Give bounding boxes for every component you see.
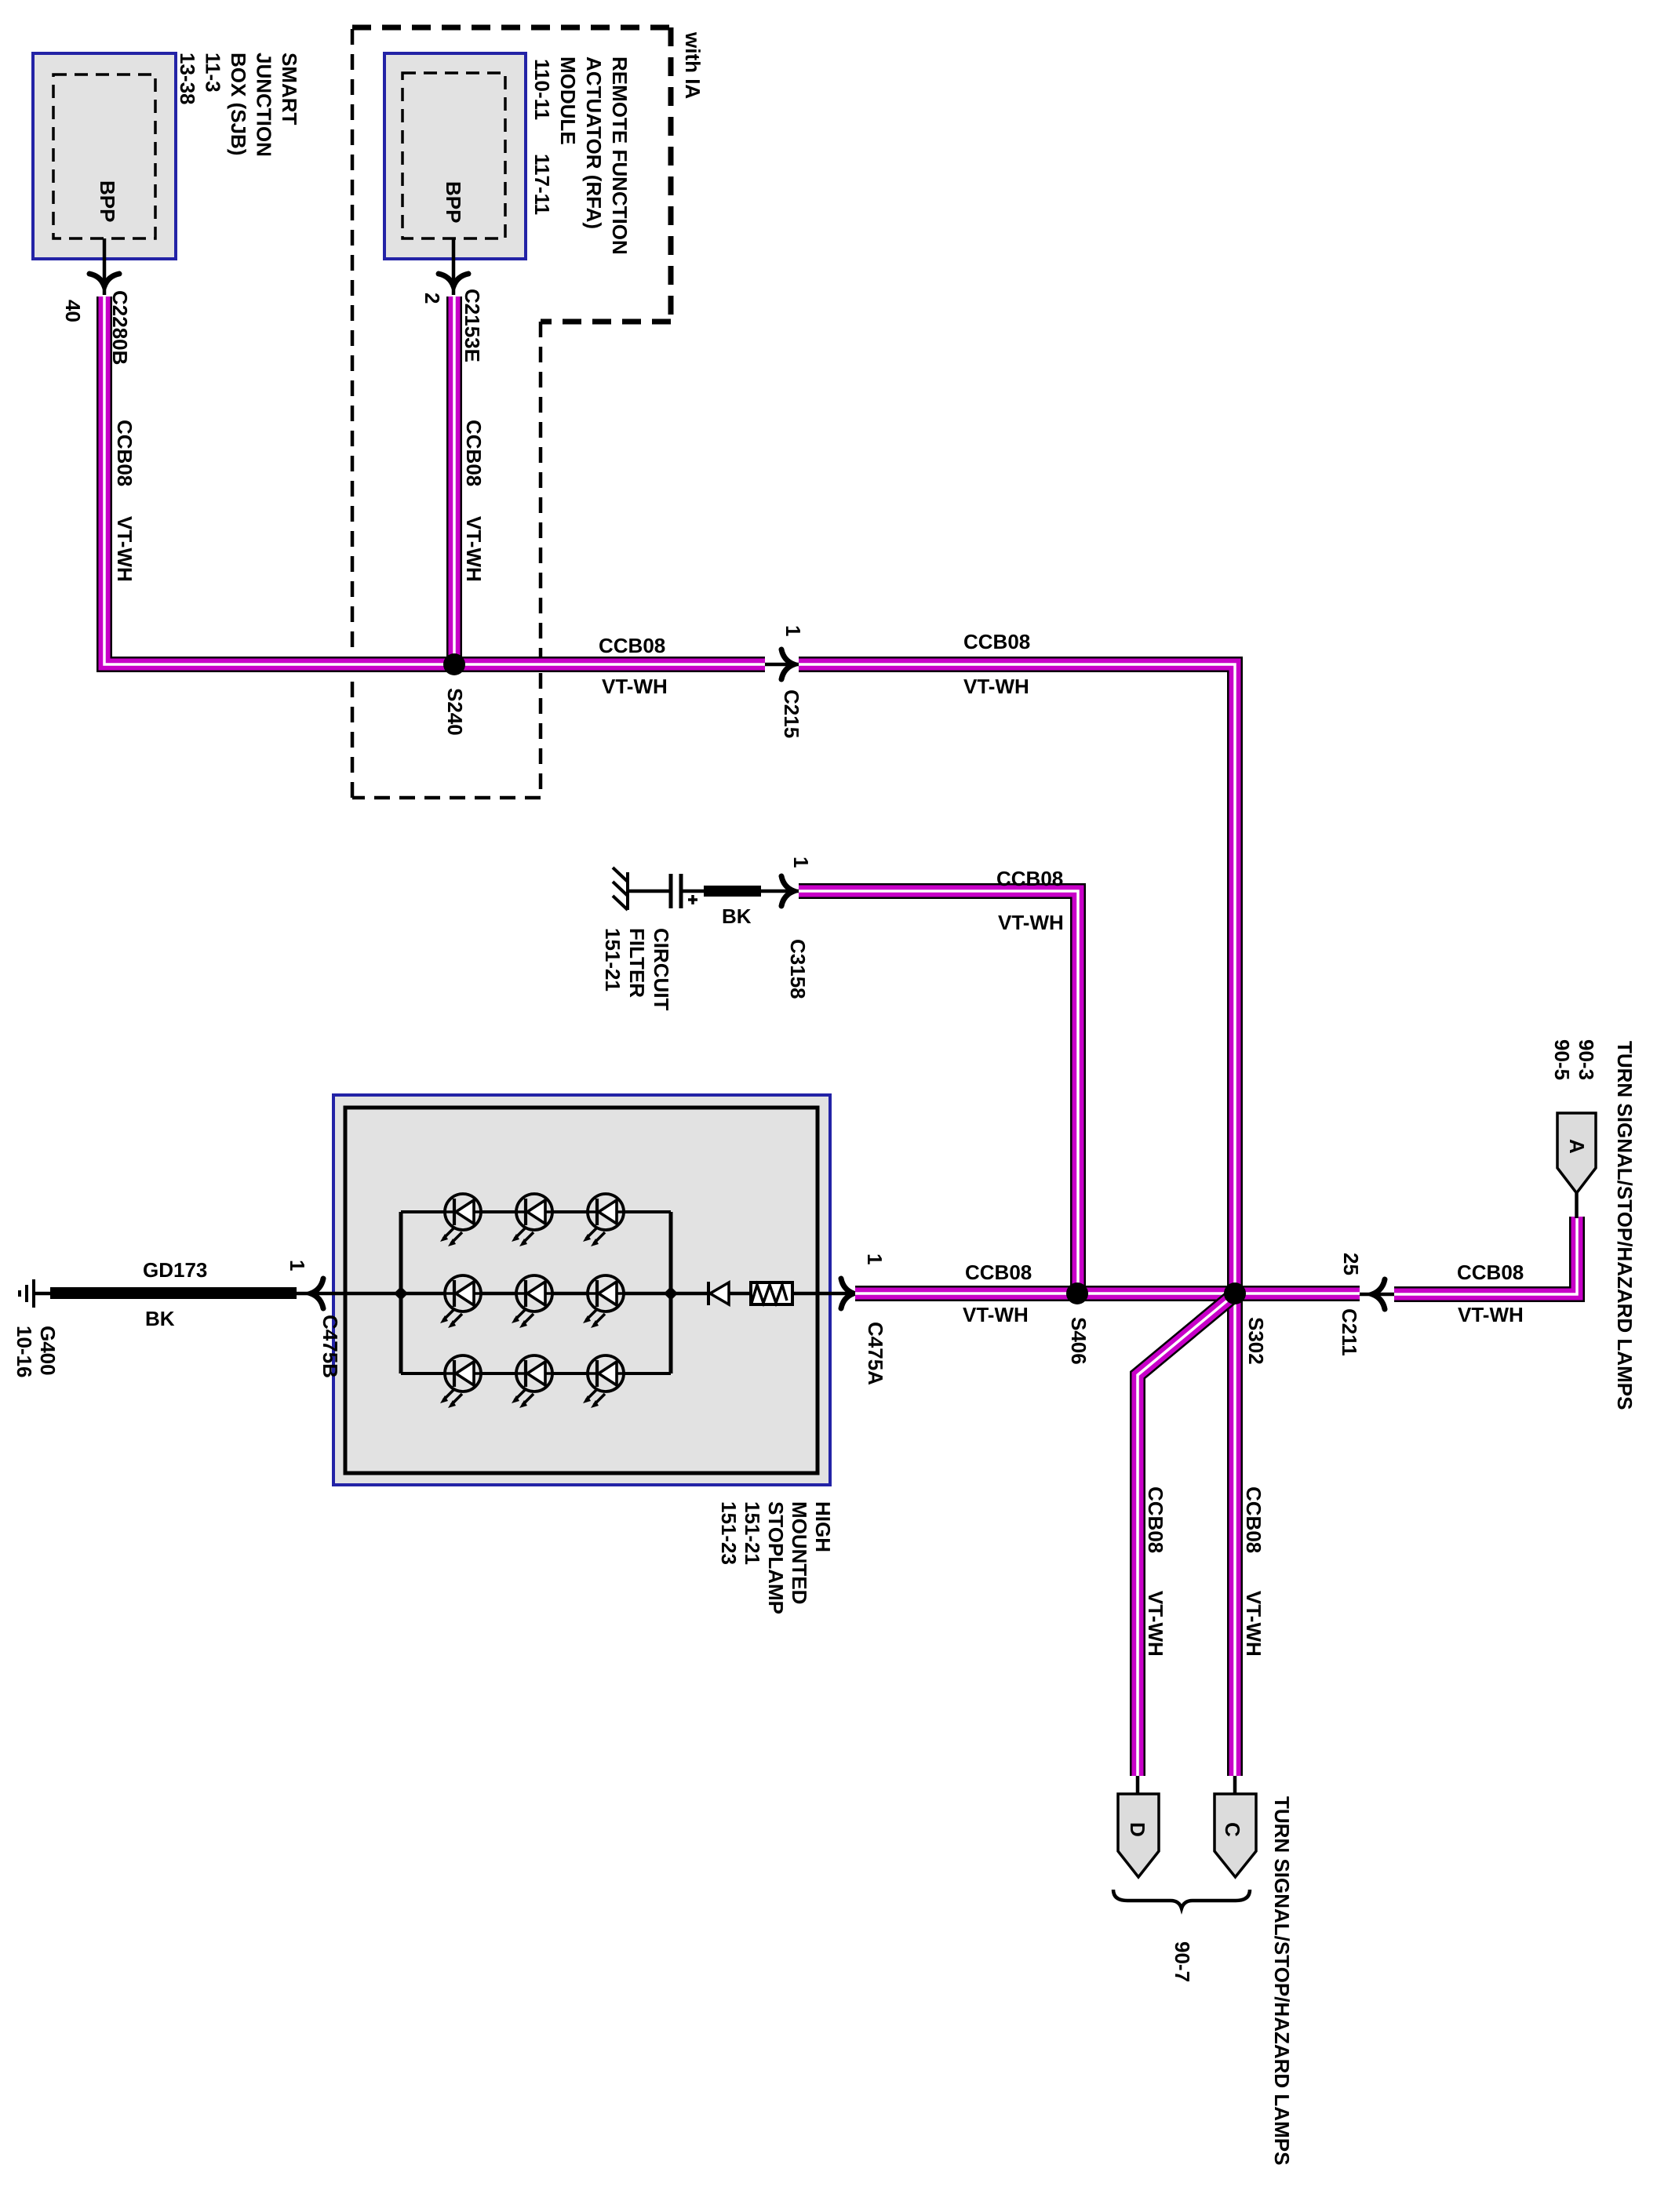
svg-text:90-7: 90-7 xyxy=(1171,1941,1194,1982)
ground G400 xyxy=(20,1279,50,1308)
filter segment label CCB08 xyxy=(996,867,1063,890)
RFA name label xyxy=(530,56,632,255)
filter BK label xyxy=(722,904,752,928)
svg-text:HIGH: HIGH xyxy=(811,1501,835,1552)
main segment label CCB08 xyxy=(965,1261,1032,1284)
filter BK wire bar xyxy=(704,886,761,897)
C215 inline lead xyxy=(765,663,799,667)
LED D5 xyxy=(512,1275,552,1328)
connector C475A label xyxy=(864,1322,887,1385)
svg-text:TURN SIGNAL/STOP/HAZARD LAMPS: TURN SIGNAL/STOP/HAZARD LAMPS xyxy=(1613,1041,1637,1410)
svg-text:CCB08: CCB08 xyxy=(996,867,1063,890)
C211 arrow xyxy=(1372,1279,1385,1309)
wire CCB08 from C3158 to S406 xyxy=(799,891,1078,1293)
filter lead to C3158 xyxy=(761,890,799,893)
svg-text:C475A: C475A xyxy=(864,1322,887,1385)
svg-text:151-23: 151-23 xyxy=(717,1501,741,1565)
wire CCB08 from C211 to connector A xyxy=(1394,1217,1577,1294)
SJB pin arrow xyxy=(89,274,119,286)
D wire label CCB08 xyxy=(1144,1486,1167,1553)
svg-text:1: 1 xyxy=(286,1260,309,1271)
svg-text:CIRCUIT: CIRCUIT xyxy=(650,928,673,1011)
C3158 arrow xyxy=(781,876,794,906)
stoplamp internal main line xyxy=(345,1292,818,1296)
D wire label VT-WH xyxy=(1144,1591,1167,1657)
wire2 label CCB08 xyxy=(462,420,486,486)
connector A destination label xyxy=(1613,1041,1637,1410)
svg-text:VT-WH: VT-WH xyxy=(1144,1591,1167,1657)
svg-text:MOUNTED: MOUNTED xyxy=(788,1501,811,1604)
circuit filter ground xyxy=(613,868,670,910)
SJB name label xyxy=(176,53,301,157)
connector A lead xyxy=(1575,1193,1579,1218)
svg-text:GD173: GD173 xyxy=(143,1258,207,1282)
LED D6 xyxy=(583,1275,624,1328)
svg-text:90-5: 90-5 xyxy=(1550,1039,1574,1080)
splice S240 label xyxy=(443,688,467,736)
svg-text:VT-WH: VT-WH xyxy=(113,516,137,582)
svg-text:S302: S302 xyxy=(1244,1317,1268,1365)
RFA pin arrow xyxy=(439,274,468,286)
LED bus rails xyxy=(401,1212,671,1373)
svg-text:VT-WH: VT-WH xyxy=(1242,1591,1266,1657)
LED D2 xyxy=(512,1194,552,1246)
svg-text:CCB08: CCB08 xyxy=(599,634,665,657)
splice S240 xyxy=(443,653,465,675)
connector C475B label xyxy=(319,1315,342,1378)
svg-text:MODULE: MODULE xyxy=(556,56,580,145)
segment1 label VT-WH xyxy=(602,675,668,698)
connector C lead xyxy=(1233,1776,1237,1794)
connector A shield xyxy=(1557,1113,1596,1193)
GD173 label xyxy=(143,1258,207,1282)
C211 lead xyxy=(1360,1293,1394,1297)
svg-text:2: 2 xyxy=(421,293,444,304)
RFA pin lead xyxy=(452,238,456,295)
svg-text:11-3: 11-3 xyxy=(202,53,225,93)
LED D1 xyxy=(440,1194,481,1246)
svg-text:VT-WH: VT-WH xyxy=(1458,1303,1524,1326)
wire1 label VT-WH xyxy=(113,516,137,582)
circuit filter capacitor xyxy=(671,874,704,908)
SJB pin label BPP xyxy=(96,180,119,222)
main wire CCB08 from C475A to C211 xyxy=(855,1286,1360,1301)
svg-text:BPP: BPP xyxy=(442,181,465,223)
LED D9 xyxy=(583,1355,624,1408)
GD173 BK label xyxy=(145,1307,175,1330)
wire CCB08 from RFA to S240 xyxy=(446,297,462,664)
connector D lead xyxy=(1136,1776,1140,1794)
svg-text:BK: BK xyxy=(722,904,752,928)
svg-text:STOPLAMP: STOPLAMP xyxy=(764,1501,788,1614)
svg-text:13-38: 13-38 xyxy=(176,53,199,105)
bus junction diamonds xyxy=(394,1286,678,1301)
svg-text:C2153E: C2153E xyxy=(461,289,484,362)
connector C2153E label xyxy=(461,289,484,362)
svg-text:with IA: with IA xyxy=(681,31,705,99)
svg-text:S240: S240 xyxy=(443,688,467,736)
LED D7 xyxy=(440,1355,481,1408)
svg-text:25: 25 xyxy=(1339,1253,1363,1275)
svg-text:CCB08: CCB08 xyxy=(963,630,1030,653)
svg-text:1: 1 xyxy=(789,857,813,868)
svg-text:110-11: 110-11 xyxy=(530,59,554,120)
svg-text:JUNCTION: JUNCTION xyxy=(253,53,276,157)
pin number 40 xyxy=(61,300,85,322)
C475B lead xyxy=(297,1292,345,1296)
C wire label CCB08 xyxy=(1242,1486,1266,1553)
high mounted stoplamp box xyxy=(333,1095,830,1485)
svg-text:BOX (SJB): BOX (SJB) xyxy=(227,53,250,155)
segment1 label CCB08 xyxy=(599,634,665,657)
svg-text:CCB08: CCB08 xyxy=(113,420,137,486)
svg-text:TURN SIGNAL/STOP/HAZARD LAMPS: TURN SIGNAL/STOP/HAZARD LAMPS xyxy=(1270,1796,1294,2165)
svg-text:1: 1 xyxy=(863,1253,887,1264)
C475B pin 1 xyxy=(286,1260,309,1271)
splice S302 label xyxy=(1244,1317,1268,1365)
RFA pin label BPP xyxy=(442,181,465,223)
connector D shield xyxy=(1118,1794,1159,1877)
svg-text:G400: G400 xyxy=(36,1326,60,1376)
svg-text:C215: C215 xyxy=(780,689,803,738)
connector C3158 label xyxy=(786,939,810,999)
circuit filter label xyxy=(601,928,673,1011)
splice S302 xyxy=(1224,1282,1246,1304)
svg-text:BPP: BPP xyxy=(96,180,119,222)
svg-text:VT-WH: VT-WH xyxy=(963,1303,1029,1326)
wire CCB08 from C215 down to S302 and connector C xyxy=(799,664,1235,1776)
C211 pin 25 xyxy=(1339,1253,1363,1275)
svg-text:90-3: 90-3 xyxy=(1575,1039,1598,1080)
connectors DC destination label xyxy=(1270,1796,1294,2165)
svg-text:C211: C211 xyxy=(1338,1308,1361,1356)
svg-text:CCB08: CCB08 xyxy=(1457,1261,1524,1284)
wire GD173 BK bar xyxy=(50,1287,297,1299)
svg-text:CCB08: CCB08 xyxy=(1144,1486,1167,1553)
svg-text:117-11: 117-11 xyxy=(530,154,554,215)
right segment label CCB08 xyxy=(1457,1261,1524,1284)
splice S406 xyxy=(1066,1282,1088,1304)
LED D4 xyxy=(440,1275,481,1328)
svg-text:FILTER: FILTER xyxy=(625,928,649,998)
connector C shield xyxy=(1215,1794,1256,1877)
svg-text:D: D xyxy=(1126,1822,1149,1837)
right segment label VT-WH xyxy=(1458,1303,1524,1326)
pin number 2 xyxy=(421,293,444,304)
C3158 pin 1 xyxy=(789,857,813,868)
LED D3 xyxy=(583,1194,624,1246)
C475A pin 1 xyxy=(863,1253,887,1264)
svg-text:VT-WH: VT-WH xyxy=(998,911,1064,934)
svg-text:151-21: 151-21 xyxy=(741,1501,764,1565)
ground G400 label xyxy=(13,1326,60,1378)
splice S406 label xyxy=(1067,1317,1091,1365)
svg-text:CCB08: CCB08 xyxy=(1242,1486,1266,1553)
connector C2280B label xyxy=(108,290,132,365)
wire2 label VT-WH xyxy=(462,516,486,582)
C215 pin 1 xyxy=(781,625,805,636)
with IA option dashed boundary xyxy=(352,27,671,798)
svg-text:1: 1 xyxy=(781,625,805,636)
svg-text:A: A xyxy=(1565,1139,1589,1154)
svg-text:C3158: C3158 xyxy=(786,939,810,999)
main segment label VT-WH xyxy=(963,1303,1029,1326)
segment2 label CCB08 xyxy=(963,630,1030,653)
svg-text:BK: BK xyxy=(145,1307,175,1330)
wire to connector D diagonal xyxy=(1138,1294,1235,1776)
filter segment label VT-WH xyxy=(998,911,1064,934)
C475A arrow xyxy=(841,1279,854,1308)
C475B arrow xyxy=(311,1279,323,1308)
remote function actuator (RFA) module U2 xyxy=(384,53,526,259)
connector C211 label xyxy=(1338,1308,1361,1356)
svg-text:CCB08: CCB08 xyxy=(965,1261,1032,1284)
svg-text:ACTUATOR (RFA): ACTUATOR (RFA) xyxy=(582,56,606,229)
svg-text:VT-WH: VT-WH xyxy=(602,675,668,698)
brace grouping D and C xyxy=(1113,1890,1250,1908)
svg-text:151-21: 151-21 xyxy=(601,928,625,991)
diode D10 xyxy=(708,1282,729,1305)
connector A page refs xyxy=(1550,1039,1598,1080)
smart junction box (SJB) U1 xyxy=(33,53,176,259)
svg-text:VT-WH: VT-WH xyxy=(963,675,1029,698)
svg-text:S406: S406 xyxy=(1067,1317,1091,1365)
C475A lead xyxy=(818,1292,855,1296)
with IA label xyxy=(681,31,705,99)
LED D8 xyxy=(512,1355,552,1408)
C wire label VT-WH xyxy=(1242,1591,1266,1657)
wire CCB08 from SJB to S240 and C215 xyxy=(104,297,765,664)
svg-text:40: 40 xyxy=(61,300,85,322)
wire1 label CCB08 xyxy=(113,420,137,486)
connector C215 label xyxy=(780,689,803,738)
stoplamp name label xyxy=(717,1501,835,1614)
segment2 label VT-WH xyxy=(963,675,1029,698)
svg-text:C475B: C475B xyxy=(319,1315,342,1378)
SJB pin lead xyxy=(103,238,107,295)
svg-text:10-16: 10-16 xyxy=(13,1326,36,1378)
svg-text:CCB08: CCB08 xyxy=(462,420,486,486)
C215 arrow xyxy=(781,649,794,679)
resistor R1 xyxy=(751,1282,792,1304)
svg-text:C: C xyxy=(1221,1822,1244,1837)
brace page ref 90-7 xyxy=(1171,1941,1194,1982)
svg-text:SMART: SMART xyxy=(278,53,301,126)
svg-text:REMOTE FUNCTION: REMOTE FUNCTION xyxy=(608,56,632,255)
svg-text:VT-WH: VT-WH xyxy=(462,516,486,582)
